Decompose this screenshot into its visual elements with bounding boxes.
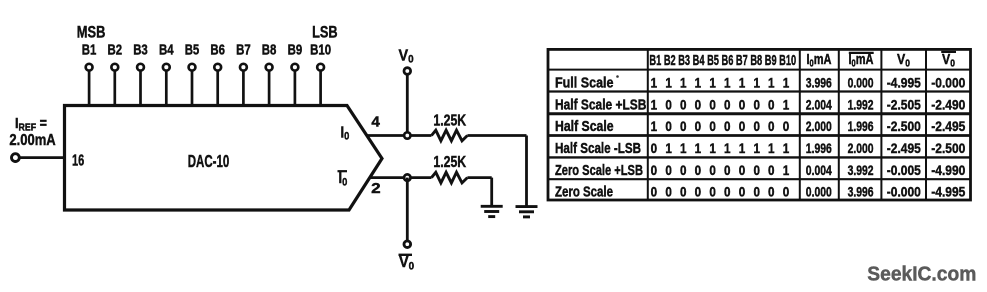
svg-text:1.992: 1.992 [848, 96, 874, 112]
svg-text:0: 0 [724, 96, 731, 112]
svg-text:1: 1 [665, 74, 672, 90]
svg-text:-0.005: -0.005 [887, 162, 921, 178]
svg-text:0.000: 0.000 [806, 184, 832, 200]
svg-text:1: 1 [709, 140, 716, 156]
svg-text:1: 1 [753, 140, 760, 156]
svg-text:1: 1 [753, 74, 760, 90]
svg-text:1: 1 [680, 74, 687, 90]
svg-text:2: 2 [371, 180, 381, 197]
svg-text:Half Scale: Half Scale [555, 119, 614, 135]
svg-text:0: 0 [709, 184, 716, 200]
svg-text:-2.495: -2.495 [887, 140, 921, 156]
svg-text:B2: B2 [108, 41, 123, 58]
svg-text:B9: B9 [288, 41, 303, 58]
svg-text:0: 0 [753, 184, 760, 200]
svg-text:1: 1 [768, 74, 775, 90]
svg-text:0: 0 [680, 96, 687, 112]
svg-text:0: 0 [665, 96, 672, 112]
svg-text:0: 0 [768, 96, 775, 112]
svg-text:1.25K: 1.25K [433, 112, 466, 129]
svg-text:1: 1 [768, 140, 775, 156]
svg-text:0: 0 [724, 184, 731, 200]
svg-text:-2.495: -2.495 [931, 118, 965, 134]
svg-text:0: 0 [783, 184, 790, 200]
svg-text:0: 0 [739, 162, 746, 178]
svg-text:B1 B2 B3 B4 B5 B6 B7 B8 B9 B10: B1 B2 B3 B4 B5 B6 B7 B8 B9 B10 [649, 52, 796, 69]
svg-text:Zero Scale +LSB: Zero Scale +LSB [555, 163, 643, 179]
svg-text:0.004: 0.004 [806, 162, 832, 178]
svg-text:0: 0 [709, 162, 716, 178]
svg-text:V0: V0 [399, 253, 414, 272]
svg-text:Half Scale +LSB: Half Scale +LSB [555, 97, 646, 113]
svg-text:3.996: 3.996 [806, 74, 832, 90]
svg-text:-0.000: -0.000 [931, 74, 965, 90]
svg-text:0: 0 [783, 118, 790, 134]
svg-text:1: 1 [651, 96, 658, 112]
svg-text:B5: B5 [185, 41, 200, 58]
svg-text:2.000: 2.000 [806, 118, 832, 134]
svg-text:1: 1 [783, 162, 790, 178]
svg-text:3.996: 3.996 [848, 184, 874, 200]
svg-text:0: 0 [680, 118, 687, 134]
svg-text:0: 0 [680, 162, 687, 178]
svg-text:0: 0 [651, 140, 658, 156]
svg-text:3.992: 3.992 [848, 162, 874, 178]
svg-text:-2.500: -2.500 [887, 118, 921, 134]
svg-text:1: 1 [651, 118, 658, 134]
svg-text:-4.995: -4.995 [931, 184, 965, 200]
svg-text:0: 0 [665, 162, 672, 178]
svg-text:1: 1 [651, 74, 658, 90]
svg-text:DAC-10: DAC-10 [188, 151, 230, 171]
svg-text:LSB: LSB [312, 24, 338, 42]
svg-text:0: 0 [724, 162, 731, 178]
svg-text:B3: B3 [133, 41, 148, 58]
svg-text:16: 16 [72, 152, 84, 169]
svg-text:1: 1 [739, 140, 746, 156]
svg-text:0: 0 [739, 96, 746, 112]
svg-text:0: 0 [709, 96, 716, 112]
svg-text:0: 0 [695, 184, 702, 200]
svg-text:2.00mA: 2.00mA [9, 132, 55, 149]
svg-text:0: 0 [651, 184, 658, 200]
svg-text:1: 1 [695, 140, 702, 156]
svg-text:B4: B4 [159, 41, 174, 58]
svg-text:1: 1 [680, 140, 687, 156]
svg-text:0: 0 [695, 118, 702, 134]
svg-text:B10: B10 [310, 41, 331, 58]
svg-text:0: 0 [680, 184, 687, 200]
svg-text:B1: B1 [82, 41, 97, 58]
svg-text:0: 0 [665, 118, 672, 134]
svg-text:Half Scale -LSB: Half Scale -LSB [555, 141, 641, 157]
svg-text:1: 1 [709, 74, 716, 90]
svg-text:1: 1 [783, 140, 790, 156]
svg-text:1: 1 [783, 96, 790, 112]
svg-text:V0: V0 [399, 47, 414, 66]
svg-text:0: 0 [739, 118, 746, 134]
svg-text:2.004: 2.004 [806, 96, 832, 112]
svg-text:0: 0 [753, 118, 760, 134]
svg-text:1: 1 [695, 74, 702, 90]
svg-text:SeekIC.com: SeekIC.com [867, 264, 976, 286]
svg-text:0: 0 [753, 96, 760, 112]
svg-text:B8: B8 [262, 41, 277, 58]
svg-text:-2.505: -2.505 [887, 96, 921, 112]
svg-text:-4.995: -4.995 [887, 74, 921, 90]
svg-text:Full Scale: Full Scale [555, 75, 614, 91]
svg-text:1: 1 [724, 74, 731, 90]
svg-text:0: 0 [709, 118, 716, 134]
svg-text:0: 0 [768, 162, 775, 178]
svg-text:0: 0 [665, 184, 672, 200]
svg-text:1: 1 [665, 140, 672, 156]
svg-text:0.000: 0.000 [848, 74, 874, 90]
svg-text:1.996: 1.996 [806, 140, 832, 156]
svg-text:-2.490: -2.490 [931, 96, 965, 112]
svg-text:0: 0 [724, 118, 731, 134]
svg-text:MSB: MSB [77, 24, 106, 42]
svg-text:4: 4 [371, 114, 380, 131]
svg-text:1.25K: 1.25K [433, 154, 466, 171]
svg-text:0: 0 [768, 118, 775, 134]
svg-text:-0.000: -0.000 [887, 184, 921, 200]
svg-text:1: 1 [739, 74, 746, 90]
svg-text:1: 1 [724, 140, 731, 156]
svg-text:0: 0 [651, 162, 658, 178]
svg-text:B6: B6 [210, 41, 225, 58]
svg-text:-4.990: -4.990 [931, 162, 965, 178]
svg-text:0: 0 [739, 184, 746, 200]
svg-text:1.996: 1.996 [848, 118, 874, 134]
svg-text:0: 0 [753, 162, 760, 178]
svg-text:Zero Scale: Zero Scale [555, 185, 613, 201]
svg-text:IREF =: IREF = [15, 114, 47, 134]
svg-text:2.000: 2.000 [848, 140, 874, 156]
svg-text:0: 0 [695, 162, 702, 178]
svg-text:0: 0 [768, 184, 775, 200]
svg-text:1: 1 [783, 74, 790, 90]
svg-text:B7: B7 [236, 41, 251, 58]
svg-text:-2.500: -2.500 [931, 140, 965, 156]
svg-text:0: 0 [695, 96, 702, 112]
